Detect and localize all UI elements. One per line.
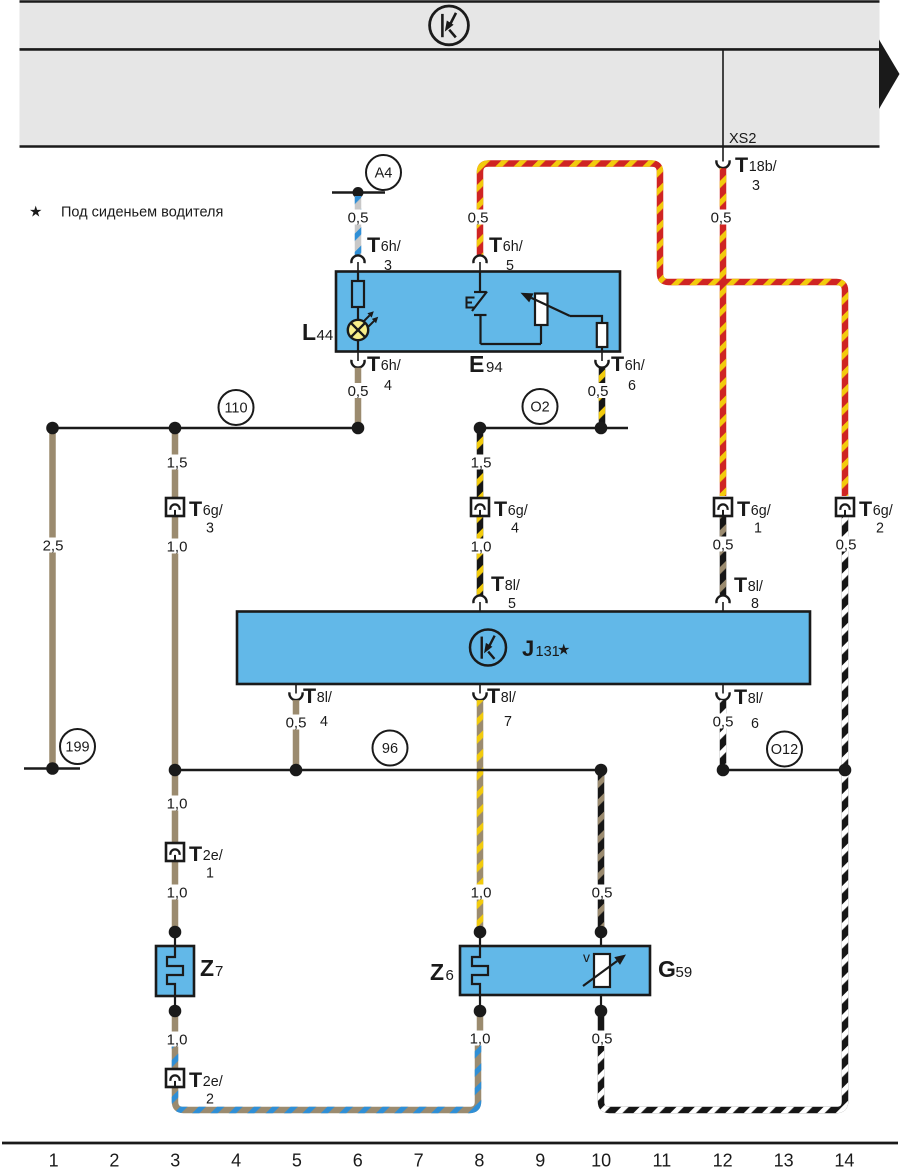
svg-text:T: T [737, 497, 750, 521]
svg-text:3: 3 [170, 1151, 180, 1169]
svg-text:8l/: 8l/ [317, 690, 332, 706]
svg-text:2e/: 2e/ [203, 848, 223, 864]
svg-text:0,5: 0,5 [588, 383, 609, 400]
svg-text:94: 94 [486, 359, 503, 376]
svg-text:5: 5 [506, 258, 514, 274]
svg-text:8l/: 8l/ [505, 578, 520, 594]
svg-text:6h/: 6h/ [625, 358, 645, 374]
svg-text:T: T [859, 497, 872, 521]
svg-text:8l/: 8l/ [748, 579, 763, 595]
svg-text:4: 4 [231, 1151, 241, 1169]
svg-text:13: 13 [774, 1151, 794, 1169]
svg-text:1,0: 1,0 [167, 795, 188, 812]
svg-text:1,5: 1,5 [471, 454, 492, 471]
svg-text:O2: O2 [530, 400, 549, 416]
svg-text:0,5: 0,5 [713, 713, 734, 730]
svg-text:6: 6 [446, 967, 454, 984]
svg-text:6h/: 6h/ [381, 239, 401, 255]
svg-text:199: 199 [65, 740, 89, 756]
svg-text:1,0: 1,0 [167, 1031, 188, 1048]
svg-text:110: 110 [224, 401, 247, 417]
svg-text:T: T [303, 684, 316, 708]
svg-text:T: T [489, 233, 502, 257]
svg-text:6: 6 [751, 716, 759, 732]
svg-text:2: 2 [876, 521, 884, 537]
svg-text:9: 9 [535, 1151, 545, 1169]
svg-text:3: 3 [384, 258, 392, 274]
svg-text:O12: O12 [771, 742, 798, 758]
svg-text:3: 3 [206, 521, 214, 537]
svg-text:1: 1 [206, 866, 214, 882]
svg-text:4: 4 [511, 521, 519, 537]
svg-text:Под сиденьем водителя: Под сиденьем водителя [61, 205, 223, 221]
svg-text:6g/: 6g/ [873, 503, 893, 519]
svg-text:0,5: 0,5 [592, 1030, 613, 1047]
svg-text:3: 3 [752, 178, 760, 194]
svg-text:T: T [734, 685, 747, 709]
svg-text:6h/: 6h/ [503, 239, 523, 255]
svg-text:L: L [302, 319, 316, 345]
svg-text:T: T [189, 1068, 202, 1092]
svg-text:G: G [658, 956, 676, 982]
svg-text:5: 5 [292, 1151, 302, 1169]
svg-text:11: 11 [653, 1151, 672, 1169]
svg-text:14: 14 [834, 1151, 854, 1169]
svg-text:T: T [734, 573, 747, 597]
svg-text:T: T [494, 497, 507, 521]
svg-text:1,0: 1,0 [167, 538, 188, 555]
svg-text:44: 44 [317, 327, 334, 344]
svg-text:7: 7 [414, 1151, 424, 1169]
svg-text:★: ★ [29, 204, 42, 221]
svg-text:0,5: 0,5 [836, 536, 857, 553]
svg-text:8: 8 [751, 596, 759, 612]
svg-text:18b/: 18b/ [749, 159, 777, 175]
svg-text:1,0: 1,0 [470, 1030, 491, 1047]
svg-text:1,5: 1,5 [167, 454, 188, 471]
svg-text:6g/: 6g/ [508, 503, 528, 519]
svg-text:2: 2 [206, 1092, 214, 1108]
svg-text:0,5: 0,5 [286, 714, 307, 731]
svg-text:T: T [487, 684, 500, 708]
svg-text:2: 2 [109, 1151, 119, 1169]
svg-text:0,5: 0,5 [711, 209, 732, 226]
svg-text:0,5: 0,5 [713, 536, 734, 553]
svg-text:96: 96 [382, 741, 398, 757]
svg-text:XS2: XS2 [729, 131, 756, 147]
svg-text:6: 6 [353, 1151, 363, 1169]
svg-text:6g/: 6g/ [203, 503, 223, 519]
svg-text:4: 4 [384, 378, 392, 394]
svg-text:6g/: 6g/ [751, 503, 771, 519]
svg-text:2e/: 2e/ [203, 1074, 223, 1090]
svg-text:1,0: 1,0 [167, 884, 188, 901]
svg-text:0,5: 0,5 [348, 383, 369, 400]
svg-text:12: 12 [713, 1151, 733, 1169]
svg-text:7: 7 [215, 963, 223, 980]
svg-text:T: T [189, 842, 202, 866]
svg-text:1,0: 1,0 [471, 884, 492, 901]
svg-text:10: 10 [591, 1151, 611, 1169]
svg-text:59: 59 [676, 964, 693, 981]
svg-text:T: T [367, 352, 380, 376]
svg-text:6h/: 6h/ [381, 358, 401, 374]
svg-text:Z: Z [200, 955, 214, 981]
svg-text:J: J [522, 636, 534, 661]
svg-text:Z: Z [430, 959, 444, 985]
svg-text:E: E [469, 351, 484, 377]
svg-text:1: 1 [49, 1151, 59, 1169]
svg-text:8l/: 8l/ [501, 690, 516, 706]
svg-text:0,5: 0,5 [348, 209, 369, 226]
svg-text:5: 5 [508, 596, 516, 612]
svg-text:★: ★ [557, 642, 570, 659]
svg-text:T: T [367, 233, 380, 257]
svg-text:T: T [189, 497, 202, 521]
svg-text:0,5: 0,5 [592, 884, 613, 901]
svg-text:6: 6 [628, 378, 636, 394]
svg-text:A4: A4 [375, 166, 393, 182]
svg-text:T: T [491, 572, 504, 596]
svg-text:8: 8 [474, 1151, 484, 1169]
svg-text:7: 7 [504, 714, 512, 730]
svg-text:1,0: 1,0 [471, 538, 492, 555]
svg-text:4: 4 [320, 714, 328, 730]
svg-text:0,5: 0,5 [468, 209, 489, 226]
svg-text:1: 1 [754, 521, 762, 537]
svg-text:2,5: 2,5 [43, 537, 64, 554]
svg-text:T: T [611, 352, 624, 376]
svg-text:8l/: 8l/ [748, 691, 763, 707]
svg-text:v: v [583, 949, 590, 965]
svg-text:T: T [735, 153, 748, 177]
